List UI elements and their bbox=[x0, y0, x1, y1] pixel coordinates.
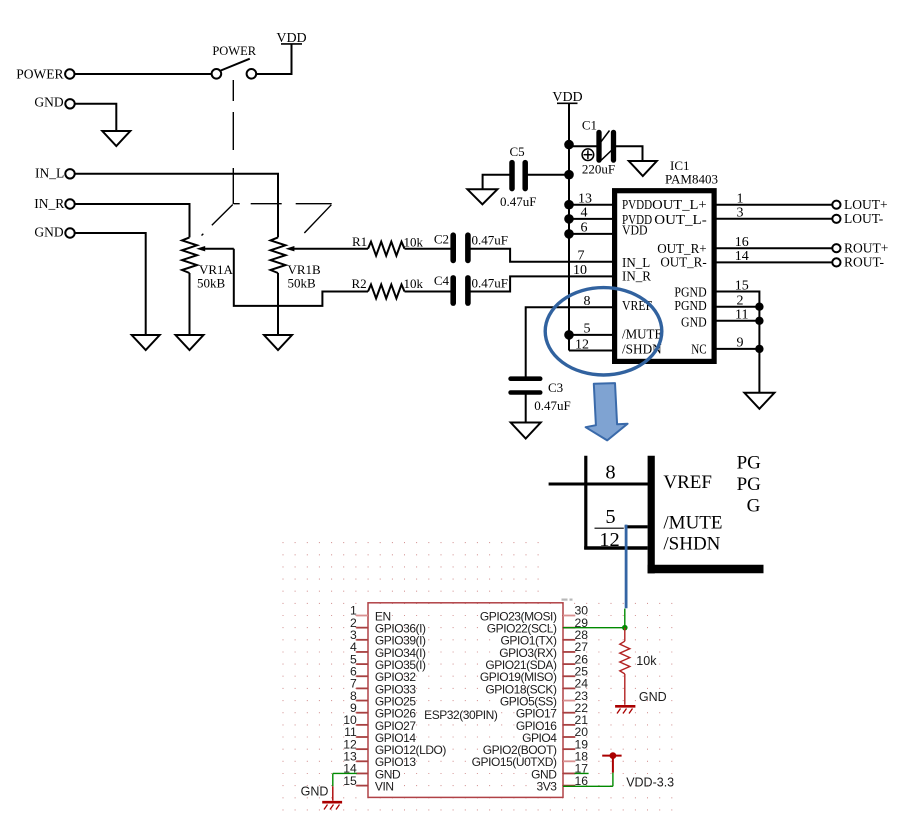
svg-text:/MUTE: /MUTE bbox=[622, 328, 662, 343]
wire GND pin 14 left bbox=[333, 772, 357, 774]
svg-text:R1: R1 bbox=[352, 234, 367, 249]
plus marking C1 bbox=[582, 149, 594, 161]
wire C1 to ground bbox=[616, 146, 643, 161]
ground C1 bbox=[629, 161, 657, 176]
pin 19 GPIO2(BOOT) bbox=[563, 748, 575, 750]
ground VR1B bbox=[264, 335, 292, 350]
pin 24 GPIO18(SCK) bbox=[563, 687, 575, 689]
svg-text:LOUT-: LOUT- bbox=[844, 211, 884, 226]
node VDD-C5 bbox=[564, 170, 574, 180]
pin 23 GPIO5(SS) bbox=[563, 700, 575, 702]
pin 29 GPIO22(SCL) bbox=[563, 627, 575, 629]
wire IN_L to VR1B top bbox=[75, 174, 278, 238]
pin 11 GPIO14 bbox=[356, 736, 368, 738]
wire C4 to pin10 bbox=[471, 276, 613, 291]
svg-text:15: 15 bbox=[735, 278, 749, 293]
switch POWER (SPST) bbox=[212, 69, 222, 79]
svg-text:0.47uF: 0.47uF bbox=[500, 194, 536, 209]
wire switch to VDD bbox=[256, 44, 292, 74]
wire C5 to VDD rail bbox=[528, 174, 570, 176]
svg-text:5: 5 bbox=[584, 322, 591, 337]
pin 14 GND bbox=[356, 772, 368, 774]
pin 3 OUT_L- to LOUT- bbox=[716, 218, 832, 220]
svg-text:7: 7 bbox=[578, 249, 585, 264]
svg-text:6: 6 bbox=[581, 221, 588, 236]
svg-text:10k: 10k bbox=[404, 276, 424, 291]
svg-text:OUT_R-: OUT_R- bbox=[660, 256, 707, 271]
svg-text:12: 12 bbox=[575, 337, 589, 352]
pin 2 PGND bbox=[716, 306, 759, 308]
svg-text:GND: GND bbox=[34, 225, 63, 240]
gray mark above ESP32 bbox=[562, 598, 568, 600]
pin 9 GPIO26 bbox=[356, 712, 368, 714]
node VDD-C1 bbox=[564, 140, 574, 150]
detail: pin 12 wire bbox=[584, 546, 647, 549]
ground IC1 right bbox=[744, 393, 774, 409]
svg-text:POWER: POWER bbox=[16, 67, 63, 82]
svg-text:11: 11 bbox=[735, 308, 748, 323]
svg-text:0.47uF: 0.47uF bbox=[534, 398, 570, 413]
pin 7 GPIO33 bbox=[356, 687, 368, 689]
pin 8 VREF wire to C3 bbox=[526, 307, 612, 377]
potentiometer VR1B 50kB bbox=[271, 237, 286, 273]
detail: VDD rail bbox=[584, 456, 587, 550]
grid dots (decorative) bbox=[283, 543, 673, 810]
mcu ESP32(30PIN) body bbox=[368, 603, 563, 798]
svg-text:10: 10 bbox=[573, 263, 587, 278]
pin 21 GPIO16 bbox=[563, 724, 575, 726]
svg-text:IN_R: IN_R bbox=[34, 196, 64, 211]
pin 20 GPIO4 bbox=[563, 736, 575, 738]
wire VR1A wiper to R2 bbox=[234, 249, 368, 306]
pin 1 EN bbox=[356, 615, 368, 617]
detail: pin 8 wire bbox=[549, 483, 651, 486]
svg-text:POWER: POWER bbox=[212, 44, 256, 58]
pin 8 GPIO25 bbox=[356, 700, 368, 702]
svg-text:ROUT-: ROUT- bbox=[844, 255, 885, 270]
svg-text:14: 14 bbox=[735, 249, 749, 264]
svg-text:VIN: VIN bbox=[375, 780, 394, 794]
svg-text:50kB: 50kB bbox=[197, 276, 226, 291]
svg-text:10k: 10k bbox=[404, 235, 424, 250]
wire C2 to pin7 bbox=[471, 249, 613, 262]
svg-text:VREF: VREF bbox=[663, 472, 712, 493]
pin 6 GPIO32 bbox=[356, 675, 368, 677]
pin 9 NC bbox=[716, 348, 759, 350]
pin 16 3V3 bbox=[563, 785, 575, 787]
pin 30 GPIO23(MOSI) bbox=[563, 615, 575, 617]
svg-text:3V3: 3V3 bbox=[536, 780, 557, 794]
svg-text:IN_R: IN_R bbox=[622, 269, 652, 284]
svg-text:C1: C1 bbox=[582, 118, 597, 133]
svg-text:PAM8403: PAM8403 bbox=[665, 172, 718, 187]
pin 14 OUT_R- to ROUT- bbox=[716, 261, 832, 263]
pin 10 GPIO27 bbox=[356, 724, 368, 726]
svg-text:2: 2 bbox=[737, 294, 744, 309]
svg-text:PG: PG bbox=[737, 453, 762, 474]
svg-text:C3: C3 bbox=[548, 380, 563, 395]
resistor 10k (pull-down) bbox=[624, 628, 626, 642]
pin 25 GPIO19(MISO) bbox=[563, 675, 575, 677]
pin 15 PGND bbox=[716, 292, 759, 393]
svg-text:IN_L: IN_L bbox=[35, 166, 64, 181]
wire C5 left to ground bbox=[483, 175, 510, 190]
pin 5 /MUTE bbox=[569, 334, 612, 336]
wire GND to ground bbox=[75, 233, 146, 335]
pin 13 PVDD bbox=[569, 204, 612, 206]
svg-text:0.47uF: 0.47uF bbox=[472, 275, 508, 290]
capacitor C3 0.47uF bbox=[511, 376, 541, 381]
potentiometer VR1A 50kB bbox=[182, 237, 197, 273]
pin 5 GPIO35(I) bbox=[356, 663, 368, 665]
pin 27 GPIO3(RX) bbox=[563, 651, 575, 653]
svg-text:15: 15 bbox=[343, 774, 357, 788]
svg-text:PGND: PGND bbox=[674, 299, 706, 314]
mechanical linkage dashed (switch to pots) bbox=[232, 80, 234, 204]
pin 4 PVDD bbox=[569, 218, 612, 220]
wire POWER terminal to switch bbox=[75, 73, 213, 75]
svg-text:GND: GND bbox=[681, 315, 707, 330]
svg-text:GND: GND bbox=[301, 785, 329, 799]
svg-text:9: 9 bbox=[737, 336, 744, 351]
svg-text:G: G bbox=[747, 496, 761, 517]
pin 17 GND bbox=[563, 772, 575, 774]
pin 18 GPIO15(U0TXD) bbox=[563, 760, 575, 762]
svg-text:VDD-3.3: VDD-3.3 bbox=[626, 775, 674, 789]
svg-text:VR1B: VR1B bbox=[288, 262, 322, 277]
detail: pin 5 stub bbox=[625, 525, 648, 528]
svg-text:8: 8 bbox=[605, 462, 615, 484]
wire GND terminal down bbox=[75, 104, 116, 131]
svg-text:C4: C4 bbox=[434, 273, 450, 288]
pin 6 VDD bbox=[569, 233, 612, 235]
wire IN_R to VR1A top bbox=[75, 204, 190, 237]
pin 4 GPIO34(I) bbox=[356, 651, 368, 653]
pin 3 GPIO39(I) bbox=[356, 639, 368, 641]
svg-text:GND: GND bbox=[34, 95, 63, 110]
svg-text:5: 5 bbox=[605, 506, 615, 528]
pin 26 GPIO21(SDA) bbox=[563, 663, 575, 665]
svg-text:8: 8 bbox=[584, 294, 591, 309]
wiper VR1B arrow bbox=[293, 248, 369, 250]
svg-text:/MUTE: /MUTE bbox=[663, 513, 722, 534]
svg-text:ESP32(30PIN): ESP32(30PIN) bbox=[424, 708, 498, 722]
svg-text:VDD: VDD bbox=[622, 224, 648, 239]
wire green stub pin 17 bbox=[575, 772, 589, 774]
wiper VR1A arrow bbox=[204, 248, 234, 250]
pin 16 OUT_R+ to ROUT+ bbox=[716, 247, 832, 249]
svg-text:OUT_L+: OUT_L+ bbox=[652, 198, 707, 213]
detail: IC1 body edge bbox=[648, 456, 655, 574]
ground VR1A bbox=[176, 335, 204, 350]
svg-text:50kB: 50kB bbox=[288, 276, 317, 291]
wire R2 to C4 bbox=[405, 291, 451, 293]
wire green GPIO22 to resistor bbox=[563, 627, 625, 629]
wire blue MUTE to ESP32 bbox=[625, 525, 628, 609]
node green junction bbox=[622, 625, 628, 631]
svg-text:PVDD: PVDD bbox=[622, 198, 652, 213]
svg-text:4: 4 bbox=[581, 206, 588, 221]
pin 22 GPIO17 bbox=[563, 712, 575, 714]
pin 12 GPIO12(LDO) bbox=[356, 748, 368, 750]
svg-text:VR1A: VR1A bbox=[199, 262, 234, 277]
pin 1 OUT_L+ to LOUT+ bbox=[716, 204, 832, 206]
pin 13 GPIO13 bbox=[356, 760, 368, 762]
wire C3 to ground bbox=[525, 393, 527, 423]
svg-text:220uF: 220uF bbox=[582, 162, 615, 177]
ground (upper GND terminal) bbox=[102, 131, 130, 146]
pin 2 GPIO36(I) bbox=[356, 627, 368, 629]
svg-text:3: 3 bbox=[737, 206, 744, 221]
wire VDD rail bbox=[568, 103, 570, 335]
node VDD-3.3 tap bbox=[602, 755, 621, 757]
pin 28 GPIO1(TX) bbox=[563, 639, 575, 641]
svg-text:10k: 10k bbox=[636, 654, 657, 668]
ground C3 bbox=[511, 423, 541, 439]
svg-text:C5: C5 bbox=[510, 144, 525, 159]
pin 11 GND bbox=[716, 320, 759, 322]
svg-text:/SHDN: /SHDN bbox=[663, 534, 720, 555]
svg-text:GND: GND bbox=[639, 690, 667, 704]
wire VDD-3.3 to 3V3 pin bbox=[612, 756, 614, 773]
annotation blue ellipse bbox=[545, 288, 662, 375]
pin 15 VIN bbox=[356, 785, 368, 787]
ground (lower GND terminal) bbox=[132, 335, 160, 350]
svg-text:1: 1 bbox=[737, 192, 744, 207]
svg-text:NC: NC bbox=[691, 343, 706, 358]
svg-text:C2: C2 bbox=[434, 232, 449, 247]
svg-text:LOUT+: LOUT+ bbox=[844, 197, 888, 212]
svg-text:ROUT+: ROUT+ bbox=[844, 241, 888, 256]
svg-text:0.47uF: 0.47uF bbox=[472, 233, 508, 248]
ground C5 bbox=[467, 189, 497, 204]
annotation blue arrow bbox=[586, 383, 628, 440]
svg-text:OUT_L-: OUT_L- bbox=[654, 213, 707, 228]
wire R1 to C2 bbox=[405, 248, 451, 250]
pin 12 /SHDN bbox=[568, 335, 570, 351]
svg-text:16: 16 bbox=[735, 235, 749, 250]
svg-text:PG: PG bbox=[737, 474, 762, 495]
svg-text:R2: R2 bbox=[352, 276, 367, 291]
svg-text:13: 13 bbox=[578, 192, 592, 207]
